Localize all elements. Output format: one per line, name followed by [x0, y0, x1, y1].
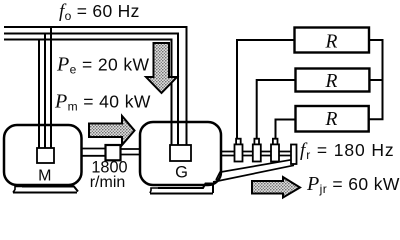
svg-text:fo = 60 Hz: fo = 60 Hz — [59, 1, 140, 23]
svg-text:M: M — [38, 168, 51, 185]
svg-text:G: G — [175, 164, 188, 182]
svg-text:r/min: r/min — [90, 174, 126, 191]
svg-text:R: R — [325, 32, 338, 53]
svg-text:R: R — [325, 109, 338, 130]
svg-text:fr = 180 Hz: fr = 180 Hz — [300, 140, 395, 162]
svg-text:R: R — [325, 71, 338, 92]
